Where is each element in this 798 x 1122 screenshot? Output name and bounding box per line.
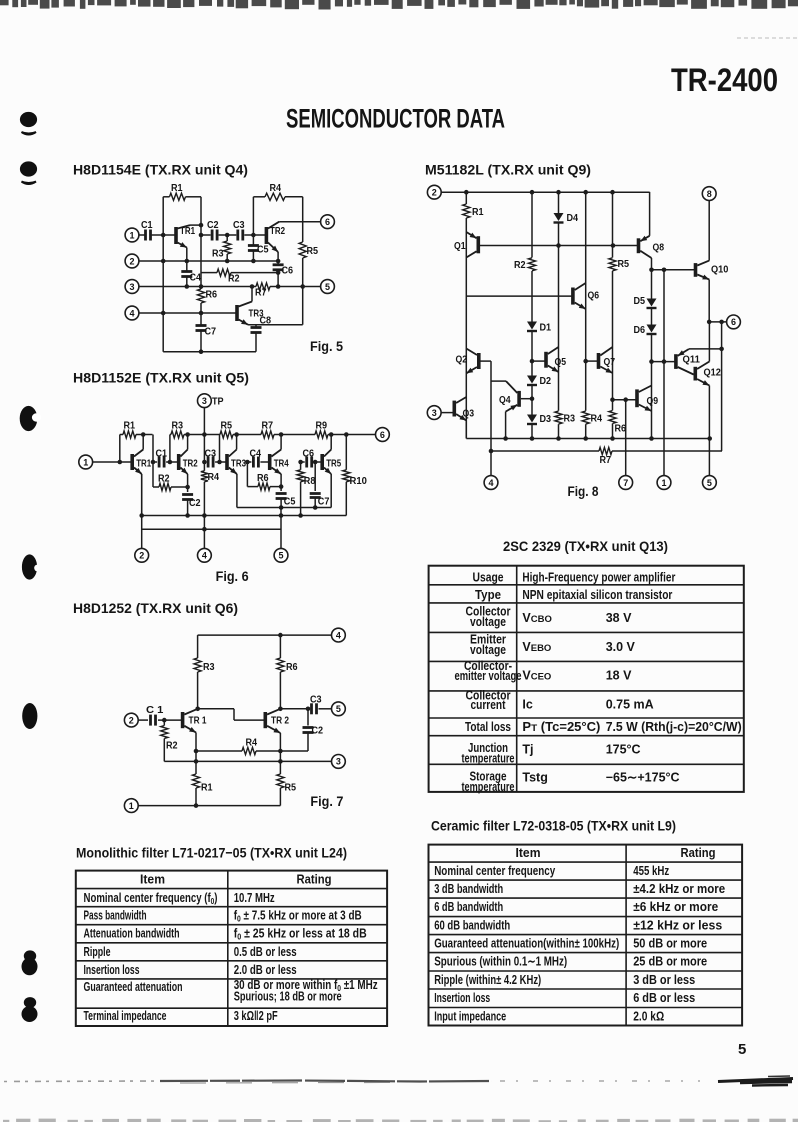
svg-text:Guaranteed attenuation: Guaranteed attenuation bbox=[84, 980, 183, 994]
svg-text:175°C: 175°C bbox=[606, 743, 641, 757]
svg-text:Guaranteed attenuation(within±: Guaranteed attenuation(within± 100kHz) bbox=[434, 937, 619, 951]
svg-text:2.0 dB or less: 2.0 dB or less bbox=[234, 963, 297, 977]
svg-text:3 dB bandwidth: 3 dB bandwidth bbox=[434, 882, 503, 896]
svg-text:6 dB bandwidth: 6 dB bandwidth bbox=[434, 900, 503, 914]
svg-text:6: 6 bbox=[380, 430, 385, 440]
svg-text:R4: R4 bbox=[591, 413, 603, 425]
svg-text:455 kHz: 455 kHz bbox=[633, 864, 669, 878]
svg-text:Q12: Q12 bbox=[704, 367, 722, 379]
svg-text:25 dB or more: 25 dB or more bbox=[633, 955, 707, 969]
svg-text:TR5: TR5 bbox=[326, 458, 341, 470]
svg-text:0.5 dB or less: 0.5 dB or less bbox=[234, 945, 297, 959]
svg-text:Tj: Tj bbox=[522, 743, 533, 757]
svg-text:TR1: TR1 bbox=[136, 458, 151, 470]
svg-text:C4: C4 bbox=[190, 272, 202, 284]
svg-text:temperature: temperature bbox=[462, 752, 515, 766]
svg-text:C5: C5 bbox=[257, 244, 269, 256]
svg-text:Pass bandwidth: Pass bandwidth bbox=[84, 909, 147, 923]
svg-text:C2: C2 bbox=[207, 219, 219, 231]
svg-text:H8D1154E (TX.RX unit Q4): H8D1154E (TX.RX unit Q4) bbox=[73, 162, 248, 178]
svg-text:Ic: Ic bbox=[522, 698, 532, 712]
svg-text:voltage: voltage bbox=[470, 615, 506, 629]
svg-text:Q3: Q3 bbox=[463, 408, 475, 420]
svg-text:Spurious (within 0.1∼1 MHz): Spurious (within 0.1∼1 MHz) bbox=[434, 955, 567, 969]
svg-text:Total loss: Total loss bbox=[465, 720, 511, 734]
svg-text:Attenuation bandwidth: Attenuation bandwidth bbox=[84, 927, 180, 941]
svg-text:High-Frequency power amplifier: High-Frequency power amplifier bbox=[522, 571, 675, 585]
svg-text:Q10: Q10 bbox=[711, 264, 729, 276]
svg-text:D6: D6 bbox=[634, 324, 646, 336]
svg-text:Q7: Q7 bbox=[604, 356, 616, 368]
svg-text:±6 kHz or more: ±6 kHz or more bbox=[633, 900, 718, 914]
svg-text:f0 ± 25 kHz or less at 18 dB: f0 ± 25 kHz or less at 18 dB bbox=[234, 927, 367, 942]
svg-text:R6: R6 bbox=[206, 289, 218, 301]
svg-text:Ceramic filter L72-0318-05 (TX: Ceramic filter L72-0318-05 (TX•RX unit L… bbox=[431, 818, 676, 834]
svg-text:C1: C1 bbox=[156, 448, 168, 460]
svg-text:R7: R7 bbox=[600, 454, 612, 466]
svg-text:VEBO: VEBO bbox=[522, 640, 551, 654]
svg-text:Rating: Rating bbox=[681, 846, 716, 860]
svg-text:Fig. 7: Fig. 7 bbox=[310, 793, 343, 809]
svg-text:D2: D2 bbox=[540, 375, 552, 387]
svg-text:R8: R8 bbox=[304, 475, 316, 487]
svg-text:2: 2 bbox=[129, 256, 134, 266]
svg-text:R6: R6 bbox=[615, 423, 627, 435]
svg-text:Fig. 8: Fig. 8 bbox=[568, 483, 599, 499]
svg-text:Q6: Q6 bbox=[588, 290, 600, 302]
svg-text:TR-2400: TR-2400 bbox=[671, 62, 778, 98]
svg-text:Q2: Q2 bbox=[456, 354, 468, 366]
svg-text:Type: Type bbox=[475, 588, 501, 602]
svg-text:Fig. 6: Fig. 6 bbox=[216, 568, 249, 584]
svg-text:2: 2 bbox=[139, 551, 144, 561]
svg-text:±12 kHz or less: ±12 kHz or less bbox=[633, 919, 722, 933]
svg-text:5: 5 bbox=[336, 704, 341, 714]
svg-text:1: 1 bbox=[129, 801, 134, 811]
svg-text:4: 4 bbox=[336, 630, 341, 640]
svg-text:R3: R3 bbox=[212, 248, 224, 260]
svg-text:Q1: Q1 bbox=[454, 240, 466, 252]
svg-text:2: 2 bbox=[432, 188, 437, 198]
svg-text:C8: C8 bbox=[260, 315, 272, 327]
svg-text:2: 2 bbox=[129, 715, 134, 725]
svg-text:6: 6 bbox=[731, 317, 736, 327]
svg-text:R4: R4 bbox=[270, 182, 282, 194]
svg-text:R7: R7 bbox=[262, 420, 274, 432]
svg-text:5: 5 bbox=[738, 1041, 746, 1058]
svg-text:Tstg: Tstg bbox=[522, 771, 547, 785]
svg-text:R1: R1 bbox=[472, 206, 484, 218]
svg-text:R1: R1 bbox=[124, 420, 136, 432]
svg-text:Insertion loss: Insertion loss bbox=[434, 991, 490, 1005]
svg-text:TR4: TR4 bbox=[274, 458, 289, 470]
svg-text:5: 5 bbox=[707, 478, 712, 488]
svg-text:VCBO: VCBO bbox=[522, 611, 551, 625]
svg-text:Q11: Q11 bbox=[683, 354, 701, 366]
svg-text:6 dB or less: 6 dB or less bbox=[633, 991, 695, 1005]
svg-text:NPN epitaxial silicon transist: NPN epitaxial silicon transistor bbox=[522, 588, 672, 602]
svg-text:18 V: 18 V bbox=[606, 669, 632, 683]
svg-text:R5: R5 bbox=[285, 782, 297, 794]
svg-text:R2: R2 bbox=[514, 259, 526, 271]
svg-text:Q9: Q9 bbox=[647, 395, 659, 407]
svg-text:D3: D3 bbox=[540, 413, 552, 425]
svg-text:R6: R6 bbox=[286, 661, 298, 673]
svg-text:TP: TP bbox=[212, 396, 224, 408]
svg-text:60 dB bandwidth: 60 dB bandwidth bbox=[434, 919, 510, 933]
svg-text:Item: Item bbox=[516, 846, 541, 860]
svg-text:R3: R3 bbox=[172, 420, 184, 432]
svg-text:C2: C2 bbox=[312, 725, 324, 737]
svg-text:8: 8 bbox=[707, 189, 712, 199]
svg-text:Q8: Q8 bbox=[653, 242, 665, 254]
svg-text:R3: R3 bbox=[203, 661, 215, 673]
svg-text:R5: R5 bbox=[618, 258, 630, 270]
svg-text:6: 6 bbox=[325, 217, 330, 227]
svg-text:Nominal center frequency: Nominal center frequency bbox=[434, 864, 555, 878]
svg-text:R2: R2 bbox=[228, 273, 240, 285]
svg-text:Input impedance: Input impedance bbox=[434, 1010, 506, 1024]
svg-text:3 dB or less: 3 dB or less bbox=[633, 973, 695, 987]
svg-text:3 kΩ‖2 pF: 3 kΩ‖2 pF bbox=[234, 1009, 278, 1023]
svg-text:1: 1 bbox=[129, 230, 134, 240]
svg-text:R4: R4 bbox=[246, 737, 258, 749]
svg-text:C4: C4 bbox=[250, 448, 262, 460]
svg-text:R2: R2 bbox=[166, 740, 178, 752]
svg-text:Insertion loss: Insertion loss bbox=[84, 963, 140, 977]
svg-text:C2: C2 bbox=[189, 497, 201, 509]
svg-text:4: 4 bbox=[202, 551, 207, 561]
svg-text:SEMICONDUCTOR DATA: SEMICONDUCTOR DATA bbox=[286, 104, 505, 134]
svg-text:0.75 mA: 0.75 mA bbox=[606, 698, 654, 712]
svg-text:3: 3 bbox=[432, 408, 437, 418]
svg-text:7.5 W (Rth(j-c)=20°C/W): 7.5 W (Rth(j-c)=20°C/W) bbox=[606, 720, 742, 734]
svg-text:4: 4 bbox=[129, 308, 134, 318]
svg-text:f0 ± 7.5 kHz or more at 3 dB: f0 ± 7.5 kHz or more at 3 dB bbox=[234, 909, 362, 924]
svg-text:R6: R6 bbox=[257, 472, 269, 484]
svg-text:Usage: Usage bbox=[473, 571, 504, 585]
svg-text:Ripple: Ripple bbox=[84, 945, 111, 959]
svg-text:emitter voltage: emitter voltage bbox=[455, 669, 522, 683]
svg-text:Q5: Q5 bbox=[555, 356, 567, 368]
svg-text:5: 5 bbox=[278, 551, 283, 561]
svg-text:±4.2 kHz or more: ±4.2 kHz or more bbox=[633, 882, 725, 896]
svg-text:R4: R4 bbox=[208, 471, 220, 483]
svg-text:C6: C6 bbox=[282, 265, 294, 277]
svg-text:TR 2: TR 2 bbox=[271, 715, 289, 727]
svg-text:1: 1 bbox=[83, 457, 88, 467]
svg-text:R1: R1 bbox=[201, 782, 213, 794]
svg-text:Spurious; 18 dB or more: Spurious; 18 dB or more bbox=[234, 990, 342, 1004]
svg-text:C7: C7 bbox=[205, 326, 217, 338]
svg-text:PT (Tc=25°C): PT (Tc=25°C) bbox=[522, 720, 600, 734]
svg-text:C3: C3 bbox=[233, 219, 245, 231]
svg-text:5: 5 bbox=[325, 282, 330, 292]
svg-text:C6: C6 bbox=[303, 448, 315, 460]
svg-text:4: 4 bbox=[488, 478, 493, 488]
svg-text:3.0 V: 3.0 V bbox=[606, 640, 636, 654]
svg-text:R10: R10 bbox=[350, 475, 368, 487]
svg-text:C3: C3 bbox=[310, 694, 322, 706]
svg-text:H8D1252 (TX.RX unit Q6): H8D1252 (TX.RX unit Q6) bbox=[73, 600, 238, 616]
svg-text:Ripple (within± 4.2 KHz): Ripple (within± 4.2 KHz) bbox=[434, 973, 541, 987]
svg-text:2.0 kΩ: 2.0 kΩ bbox=[633, 1010, 664, 1024]
svg-text:R3: R3 bbox=[564, 413, 576, 425]
svg-text:3: 3 bbox=[202, 396, 207, 406]
svg-text:C 1: C 1 bbox=[146, 704, 164, 716]
svg-text:D5: D5 bbox=[634, 295, 646, 307]
svg-text:TR3: TR3 bbox=[231, 458, 246, 470]
svg-text:Monolithic filter L71-0217−05: Monolithic filter L71-0217−05 (TX•RX uni… bbox=[76, 845, 347, 861]
svg-text:R5: R5 bbox=[221, 420, 233, 432]
svg-text:temperature: temperature bbox=[462, 780, 515, 794]
svg-text:Terminal impedance: Terminal impedance bbox=[84, 1009, 167, 1023]
svg-text:2SC 2329 (TX•RX unit Q13): 2SC 2329 (TX•RX unit Q13) bbox=[503, 538, 668, 554]
svg-text:M51182L (TX.RX unit Q9): M51182L (TX.RX unit Q9) bbox=[425, 162, 591, 178]
svg-text:50 dB or more: 50 dB or more bbox=[633, 937, 707, 951]
svg-text:Fig. 5: Fig. 5 bbox=[310, 338, 343, 354]
svg-text:voltage: voltage bbox=[470, 643, 506, 657]
svg-text:7: 7 bbox=[623, 478, 628, 488]
svg-text:TR 1: TR 1 bbox=[189, 715, 207, 727]
svg-text:−65∼+175°C: −65∼+175°C bbox=[606, 771, 680, 785]
svg-text:C3: C3 bbox=[205, 448, 217, 460]
svg-text:R5: R5 bbox=[307, 245, 319, 257]
svg-text:Q4: Q4 bbox=[499, 394, 511, 406]
svg-text:Rating: Rating bbox=[297, 873, 332, 887]
svg-text:current: current bbox=[471, 698, 507, 712]
svg-text:R7: R7 bbox=[255, 287, 267, 299]
svg-text:TR2: TR2 bbox=[270, 225, 285, 237]
svg-text:3: 3 bbox=[336, 757, 341, 767]
svg-text:C1: C1 bbox=[141, 219, 153, 231]
svg-text:TR1: TR1 bbox=[180, 225, 195, 237]
svg-text:38 V: 38 V bbox=[606, 611, 632, 625]
svg-text:TR2: TR2 bbox=[183, 458, 198, 470]
svg-text:D4: D4 bbox=[567, 212, 579, 224]
svg-text:Item: Item bbox=[140, 873, 165, 887]
svg-text:D1: D1 bbox=[540, 322, 552, 334]
svg-text:1: 1 bbox=[661, 478, 666, 488]
svg-text:R2: R2 bbox=[158, 473, 170, 485]
svg-text:C7: C7 bbox=[318, 496, 330, 508]
svg-text:10.7 MHz: 10.7 MHz bbox=[234, 891, 275, 905]
svg-text:VCEO: VCEO bbox=[522, 669, 551, 683]
svg-text:R1: R1 bbox=[171, 182, 183, 194]
svg-text:H8D1152E (TX.RX unit Q5): H8D1152E (TX.RX unit Q5) bbox=[73, 370, 249, 386]
svg-text:Nominal center frequency (f0): Nominal center frequency (f0) bbox=[84, 891, 218, 906]
svg-text:3: 3 bbox=[129, 282, 134, 292]
svg-text:C5: C5 bbox=[284, 496, 296, 508]
svg-text:R9: R9 bbox=[316, 420, 328, 432]
